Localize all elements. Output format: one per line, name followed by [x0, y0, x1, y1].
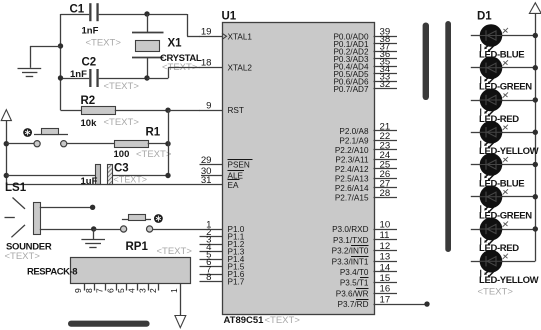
- svg-text:P2.2/A10: P2.2/A10: [335, 146, 369, 155]
- property text of R1: [136, 149, 172, 160]
- property text of X1: [162, 62, 198, 73]
- wire power rail to EA pin 31: [6, 184, 222, 186]
- LED D1.4 LED-YELLOW: [471, 121, 536, 149]
- junction dot at end of pin 17 wire: [424, 301, 429, 306]
- junction of crystal bottom with C2 wire: [144, 75, 149, 80]
- svg-text:P3.6/WR: P3.6/WR: [336, 289, 369, 298]
- LED D1.1 LED-BLUE: [471, 24, 536, 52]
- pin 24 (P2.3/A11) of U1: [335, 150, 397, 165]
- svg-text:P3.2/INT0: P3.2/INT0: [332, 247, 369, 256]
- svg-text:P3.5/T1: P3.5/T1: [340, 279, 369, 288]
- svg-text:RP1: RP1: [126, 241, 149, 253]
- pin 35 (P0.4/AD4) of U1: [333, 57, 397, 72]
- wire C1 right to XTAL1 corner: [99, 14, 200, 37]
- svg-text:LED-YELLOW: LED-YELLOW: [479, 275, 539, 286]
- capacitor C3 (polarized): [96, 165, 113, 185]
- svg-text:<TEXT>: <TEXT>: [5, 251, 41, 262]
- junction of C3 wire and RST vertical wire: [165, 173, 170, 178]
- pin 5 of RP1: [116, 283, 127, 293]
- svg-text:12: 12: [380, 241, 391, 252]
- svg-text:<TEXT>: <TEXT>: [265, 315, 301, 326]
- junction of LED-GREEN wire with anode rail: [533, 65, 538, 70]
- svg-text:19: 19: [201, 27, 212, 38]
- label U1: [222, 11, 237, 23]
- svg-text:P2.6/A14: P2.6/A14: [335, 184, 369, 193]
- value 100 of R1: [114, 149, 130, 160]
- LED D1.8 LED-YELLOW: [471, 250, 536, 278]
- value CRYSTAL of X1: [160, 53, 202, 64]
- pin 2 (P1.1) of U1: [200, 227, 245, 242]
- LED D1.3 LED-RED: [471, 89, 536, 117]
- svg-text:9: 9: [206, 100, 211, 111]
- property text of U1: [265, 315, 301, 326]
- pin 14 (P3.4/T0) of U1: [340, 262, 397, 277]
- pin 10 (P3.0/RXD) of U1: [332, 219, 397, 234]
- LED D1.2 LED-GREEN: [471, 56, 536, 84]
- wire sounder top lead (dangling): [40, 205, 96, 210]
- pin 12 (P3.2/INT0) of U1: [332, 241, 397, 256]
- svg-text:P1.7: P1.7: [228, 278, 245, 287]
- power terminal (up arrow) feeding button and EA: [1, 110, 11, 185]
- wire sounder bottom lead: [40, 229, 94, 231]
- svg-text:P3.1/TXD: P3.1/TXD: [333, 236, 369, 245]
- svg-text:14: 14: [380, 262, 391, 273]
- svg-text:P3.0/RXD: P3.0/RXD: [332, 225, 368, 234]
- pin 17 (P3.7/RD) of U1: [338, 294, 427, 309]
- pin 27 (P2.6/A14) of U1: [335, 178, 397, 193]
- pin 30 (ALE) of U1: [201, 166, 244, 181]
- property text of C1: [86, 38, 122, 49]
- push button switch (reset): [6, 129, 68, 147]
- svg-text:P2.3/A11: P2.3/A11: [335, 156, 369, 165]
- pin 4 (P1.3) of U1: [200, 242, 245, 257]
- label D1: [477, 11, 492, 23]
- pin 36 (P0.3/AD3) of U1: [333, 49, 397, 64]
- interactive actuator star of reset button: [23, 128, 32, 137]
- junction of C2 wire with rail: [58, 75, 63, 80]
- junction of RST node with R2 wire: [165, 108, 170, 113]
- svg-text:LS1: LS1: [5, 182, 27, 194]
- wire C2 right lead to crystal bottom: [99, 78, 147, 80]
- value LED-BLUE of D1.1: [479, 49, 524, 60]
- pin 29 (PSEN) of U1: [200, 155, 253, 170]
- label R2: [81, 95, 96, 107]
- pin 23 (P2.2/A10) of U1: [335, 140, 397, 155]
- svg-text:D1: D1: [477, 11, 492, 23]
- value 1nF of C2: [70, 69, 87, 80]
- label C3: [114, 163, 129, 175]
- resistor R2: [61, 107, 169, 115]
- svg-text:2: 2: [148, 288, 158, 293]
- svg-text:11: 11: [380, 230, 390, 241]
- svg-text:1uF: 1uF: [81, 176, 98, 187]
- wire button to R1: [67, 143, 114, 145]
- LED D1.6 LED-GREEN: [471, 185, 536, 213]
- value LED-BLUE of D1.5: [479, 178, 524, 189]
- pin 25 (P2.4/A12) of U1: [335, 159, 397, 174]
- crystal X1: [132, 14, 164, 78]
- property text of RP1: [157, 246, 193, 257]
- svg-text:5: 5: [116, 288, 126, 293]
- pin 2 of RP1: [148, 283, 158, 293]
- junction of LED-GREEN wire with anode rail: [533, 194, 538, 199]
- label R1: [146, 127, 161, 139]
- svg-text:10k: 10k: [81, 118, 98, 129]
- svg-text:<TEXT>: <TEXT>: [157, 246, 193, 257]
- pin 6 of RP1: [105, 283, 116, 293]
- svg-text:R1: R1: [146, 127, 161, 139]
- svg-text:EA: EA: [228, 181, 239, 190]
- value 1uF of C3: [81, 176, 98, 187]
- pin 7 of RP1: [95, 283, 106, 293]
- svg-text:<TEXT>: <TEXT>: [104, 81, 140, 92]
- svg-text:7: 7: [95, 288, 105, 293]
- svg-text:P2.1/A9: P2.1/A9: [339, 137, 369, 146]
- svg-text:13: 13: [380, 252, 391, 263]
- pin 28 (P2.7/A15) of U1: [335, 188, 397, 203]
- svg-text:9: 9: [73, 288, 83, 293]
- pin 37 (P0.2/AD2) of U1: [333, 42, 397, 57]
- pin 39 (P0.0/AD0) of U1: [333, 27, 397, 42]
- ground symbol for oscillator: [18, 46, 61, 77]
- svg-text:RST: RST: [228, 106, 244, 115]
- svg-text:P2.0/A8: P2.0/A8: [339, 127, 369, 136]
- pin 8 of RP1: [84, 283, 95, 293]
- capacitor C2: [89, 69, 99, 87]
- value LED-GREEN of D1.6: [479, 211, 532, 222]
- junction of ground wire with rail: [58, 43, 63, 48]
- svg-text:XTAL1: XTAL1: [228, 32, 253, 41]
- svg-text:1: 1: [169, 288, 179, 293]
- svg-text:P3.4/T0: P3.4/T0: [340, 268, 369, 277]
- svg-text:18: 18: [201, 58, 212, 69]
- pin 33 (P0.6/AD6) of U1: [333, 72, 397, 87]
- label AT89C51: [224, 315, 265, 326]
- svg-text:4: 4: [127, 288, 137, 293]
- LED D1.5 LED-BLUE: [471, 153, 536, 181]
- property text of D1: [478, 287, 514, 298]
- svg-text:1nF: 1nF: [82, 26, 99, 37]
- junction of crystal top with C1 wire: [144, 11, 149, 16]
- svg-text:<TEXT>: <TEXT>: [86, 38, 122, 49]
- svg-text:6: 6: [105, 288, 115, 293]
- wire C2 left lead: [61, 78, 90, 80]
- wire LED anode rail vertical: [535, 13, 537, 261]
- value 10k of R2: [81, 118, 98, 129]
- pin 18 (XTAL2) of U1: [200, 58, 253, 73]
- wire vertical RST node: [168, 110, 170, 176]
- svg-text:R2: R2: [81, 95, 96, 107]
- value LED-GREEN of D1.2: [479, 82, 532, 93]
- svg-text:U1: U1: [222, 11, 237, 23]
- value 1nF of C1: [82, 26, 99, 37]
- op-amp U1 body: AT89C51 microcontroller box: [223, 23, 375, 315]
- pin 31 (EA) of U1: [201, 175, 240, 190]
- pin 21 (P2.0/A8) of U1: [339, 121, 397, 136]
- wire vertical rail joining C1 C2 R2: [60, 14, 62, 110]
- property text of C2: [104, 81, 140, 92]
- pin 3 of RP1: [137, 283, 148, 293]
- pin 4 of RP1: [127, 283, 138, 293]
- wire ground junction to second button: [94, 229, 121, 231]
- pin 34 (P0.5/AD5) of U1: [333, 64, 397, 79]
- svg-text:<TEXT>: <TEXT>: [136, 149, 172, 160]
- label X1: [168, 38, 183, 50]
- junction of LED-BLUE wire with anode rail: [533, 162, 538, 167]
- ground symbol below sounder wire: [81, 229, 105, 248]
- junction of LED-RED wire with anode rail: [533, 97, 538, 102]
- svg-text:3: 3: [137, 288, 147, 293]
- svg-text:29: 29: [201, 155, 212, 166]
- label LS1: [5, 182, 27, 194]
- ground terminal (down arrow) at RP1 pin 1: [175, 316, 186, 328]
- pin 1 (P1.0) of U1: [206, 219, 245, 234]
- svg-text:X1: X1: [168, 38, 183, 50]
- pin 5 (P1.4) of U1: [200, 249, 245, 264]
- label RP1: [126, 241, 149, 253]
- svg-text:C1: C1: [70, 4, 85, 16]
- svg-text:P2.5/A13: P2.5/A13: [335, 175, 369, 184]
- wire C3 to RST node: [112, 175, 168, 177]
- property text of R2: [104, 117, 140, 128]
- capacitor C1: [89, 3, 99, 21]
- pin 26 (P2.5/A13) of U1: [335, 169, 397, 184]
- svg-text:8: 8: [84, 288, 94, 293]
- value LED-YELLOW of D1.8: [479, 275, 539, 286]
- svg-text:P2.7/A15: P2.7/A15: [335, 194, 369, 203]
- junction of C3 wire with power rail: [4, 173, 9, 178]
- pin 6 (P1.5) of U1: [200, 257, 245, 272]
- pin 9 of RP1: [73, 283, 84, 293]
- pin 3 (P1.2) of U1: [200, 234, 245, 249]
- resistor R1: [115, 141, 169, 148]
- pin 13 (P3.3/INT1) of U1: [332, 252, 397, 267]
- property text of C3: [114, 175, 148, 185]
- svg-text:28: 28: [380, 188, 391, 199]
- value RESPACK-8 of RP1: [27, 267, 77, 278]
- pin 15 (P3.5/T1) of U1: [340, 273, 397, 288]
- pin 22 (P2.1/A9) of U1: [339, 131, 397, 146]
- svg-text:P0.7/AD7: P0.7/AD7: [333, 85, 368, 94]
- pin 32 (P0.7/AD7) of U1: [333, 79, 397, 94]
- svg-text:C3: C3: [114, 163, 129, 175]
- svg-text:8: 8: [206, 272, 211, 283]
- junction of LED-RED wire with anode rail: [533, 226, 538, 231]
- junction of sounder wire and ground stem: [91, 226, 96, 231]
- svg-text:P2.4/A12: P2.4/A12: [335, 165, 369, 174]
- interactive actuator star of second button: [154, 214, 163, 223]
- value LED-YELLOW of D1.4: [479, 146, 539, 157]
- svg-text:C2: C2: [82, 57, 97, 69]
- bus segment near P0 port: [423, 23, 429, 101]
- pin 11 (P3.1/TXD) of U1: [333, 230, 397, 245]
- svg-text:XTAL2: XTAL2: [228, 63, 253, 72]
- svg-text:P3.3/INT1: P3.3/INT1: [332, 257, 369, 266]
- push button switch (P1.0): [121, 215, 153, 233]
- svg-text:17: 17: [380, 294, 391, 305]
- pin 19 (XTAL1) of U1: [200, 27, 253, 42]
- pin 38 (P0.1/AD1) of U1: [333, 34, 397, 49]
- power terminal (up arrow) feeding LED rail: [529, 3, 541, 14]
- junction of button wire with power rail: [4, 141, 9, 146]
- value SOUNDER of LS1: [6, 242, 52, 253]
- LED D1.7 LED-RED: [471, 218, 536, 246]
- svg-text:100: 100: [114, 149, 130, 160]
- pin 1 of RP1 with wire to ground: [169, 283, 180, 315]
- svg-text:RESPACK-8: RESPACK-8: [27, 267, 77, 278]
- svg-text:10: 10: [380, 219, 391, 230]
- svg-text:PSEN: PSEN: [228, 161, 250, 170]
- value LED-RED of D1.7: [479, 243, 519, 254]
- svg-text:P3.7/RD: P3.7/RD: [338, 300, 369, 309]
- value LED-RED of D1.3: [479, 114, 519, 125]
- resistor pack RP1 body: [71, 258, 191, 284]
- svg-text:32: 32: [380, 79, 391, 90]
- wire second button to pin 1 P1.0: [153, 229, 222, 231]
- junction of R1 with RST vertical wire: [165, 141, 170, 146]
- pin 7 (P1.6) of U1: [200, 264, 245, 279]
- pin 9 (RST) of U1: [200, 100, 244, 115]
- bus segment vertical long: [445, 21, 451, 252]
- wire C1 left lead and corner down to vertical rail: [61, 14, 90, 16]
- svg-text:AT89C51: AT89C51: [224, 315, 265, 326]
- bus segment horizontal bottom left: [68, 321, 150, 327]
- junction of LED-YELLOW wire with anode rail: [533, 130, 538, 135]
- label C2: [82, 57, 97, 69]
- svg-text:<TEXT>: <TEXT>: [104, 117, 140, 128]
- svg-text:15: 15: [380, 273, 391, 284]
- property text of LS1: [5, 251, 41, 262]
- sounder LS1: [5, 198, 41, 238]
- junction of LED-BLUE wire with anode rail: [533, 33, 538, 38]
- wire power rail to C3: [6, 175, 96, 177]
- pin 16 (P3.6/WR) of U1: [336, 284, 397, 299]
- pin 8 (P1.7) of U1: [200, 272, 245, 287]
- wire crystal bottom to XTAL2 pin: [147, 67, 200, 78]
- label C1: [70, 4, 85, 16]
- svg-text:16: 16: [380, 284, 391, 295]
- svg-text:<TEXT>: <TEXT>: [478, 287, 514, 298]
- wire RST node to pin 9: [168, 110, 200, 112]
